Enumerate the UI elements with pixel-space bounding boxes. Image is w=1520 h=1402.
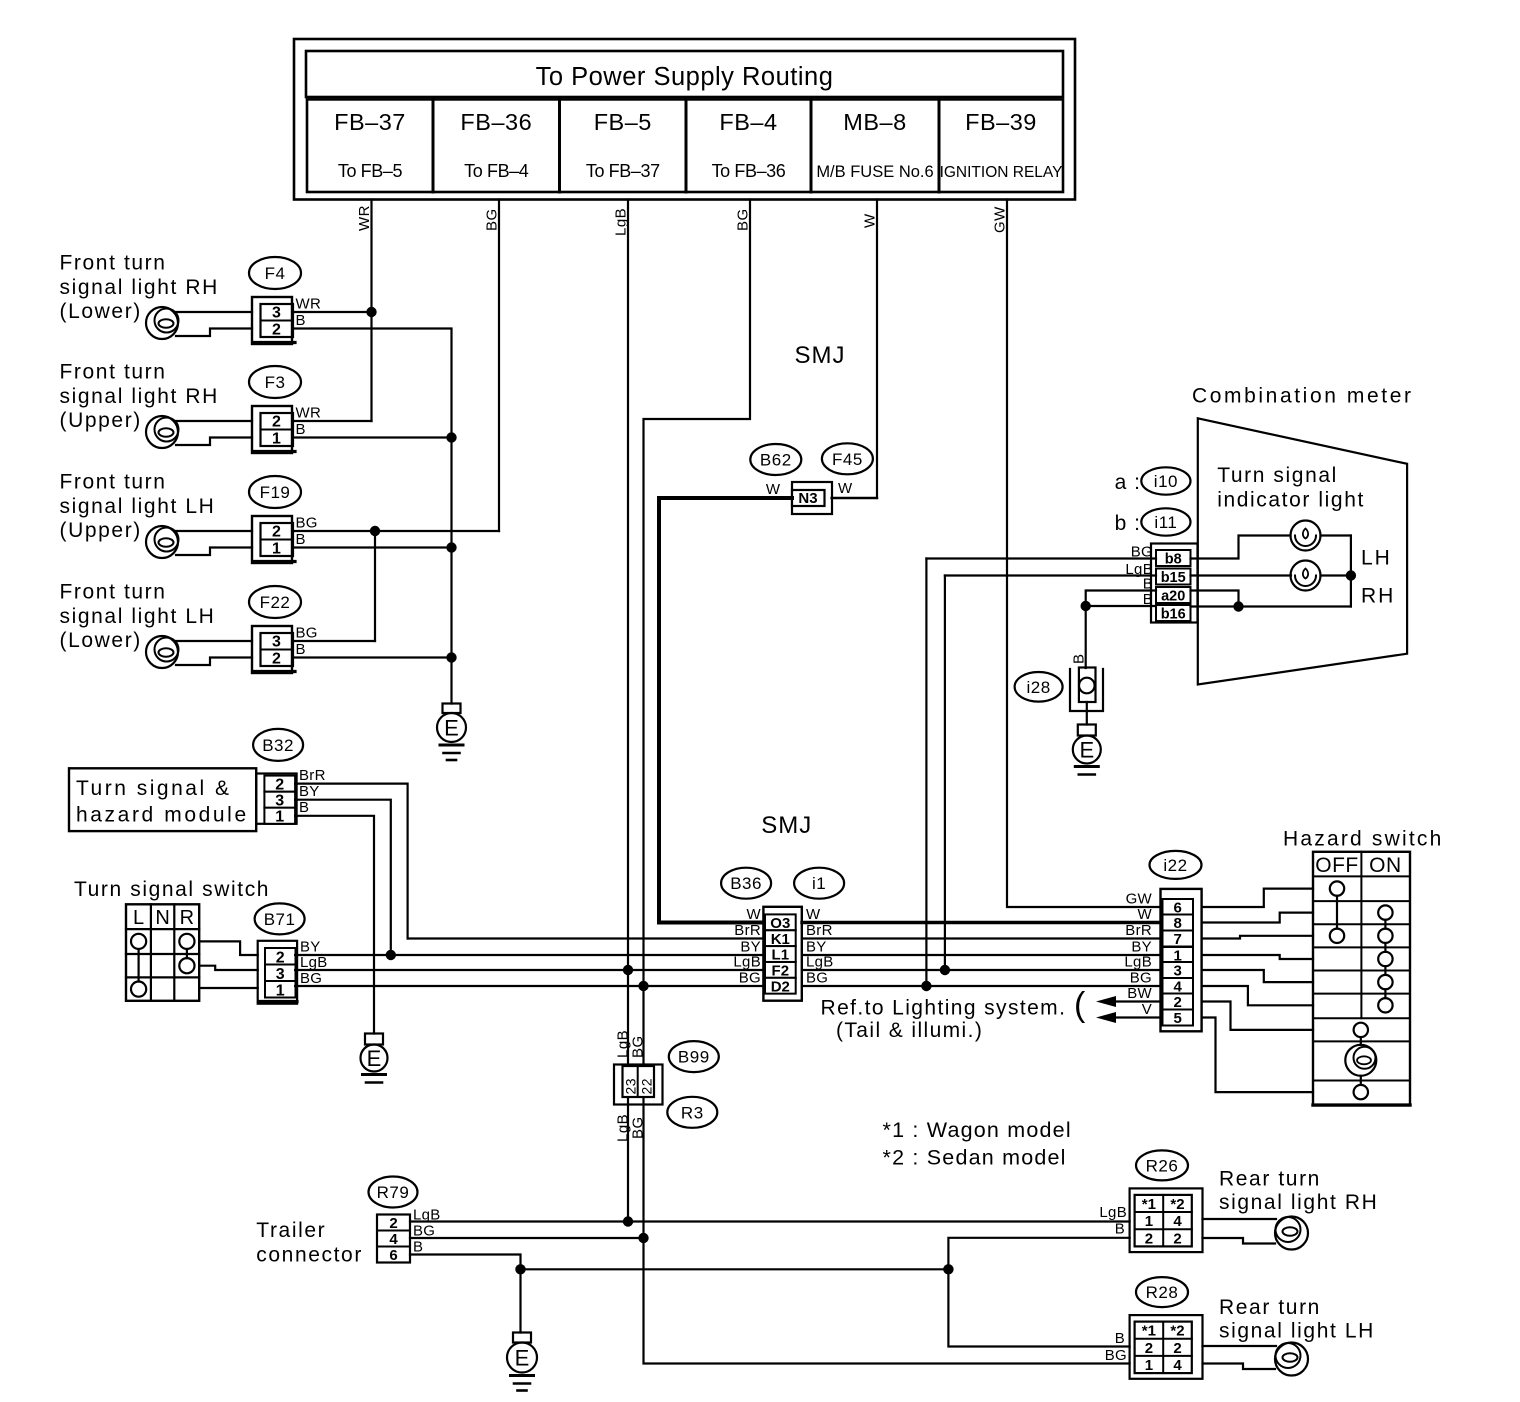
svg-text:Rear turn: Rear turn (1219, 1168, 1321, 1191)
svg-text:3: 3 (272, 305, 281, 322)
svg-text:i28: i28 (1027, 678, 1051, 697)
svg-text:B: B (296, 531, 306, 548)
svg-text:*2 : Sedan model: *2 : Sedan model (883, 1146, 1067, 1170)
svg-text:b16: b16 (1161, 607, 1186, 623)
svg-text:R28: R28 (1146, 1283, 1179, 1302)
svg-text:1: 1 (272, 431, 281, 448)
svg-text:To FB–5: To FB–5 (338, 161, 403, 181)
svg-text:IGNITION RELAY: IGNITION RELAY (940, 164, 1063, 181)
svg-text:6: 6 (389, 1247, 397, 1264)
svg-text:FB–5: FB–5 (594, 109, 652, 135)
svg-text:F3: F3 (265, 373, 286, 392)
svg-text:Front turn: Front turn (60, 471, 167, 494)
svg-text:WR: WR (296, 405, 322, 422)
svg-text:LH: LH (1361, 547, 1392, 570)
svg-text:D2: D2 (771, 978, 790, 995)
svg-text:connector: connector (256, 1244, 363, 1267)
svg-text:2: 2 (1174, 994, 1182, 1011)
svg-text:(Upper): (Upper) (60, 409, 142, 432)
svg-text:W: W (1138, 906, 1153, 923)
svg-text:F19: F19 (260, 483, 291, 502)
svg-text:To Power Supply Routing: To Power Supply Routing (536, 63, 834, 91)
svg-text:To FB–4: To FB–4 (464, 161, 529, 181)
svg-text:signal light LH: signal light LH (60, 605, 216, 628)
svg-text:BrR: BrR (734, 922, 761, 939)
svg-text:B: B (296, 641, 306, 658)
svg-text:BG: BG (806, 970, 828, 987)
svg-text:Trailer: Trailer (256, 1219, 326, 1242)
svg-text:a20: a20 (1161, 589, 1185, 605)
svg-text:FB–37: FB–37 (334, 109, 406, 135)
svg-text:B: B (1115, 1330, 1125, 1347)
svg-text:N: N (155, 907, 169, 929)
svg-text:23: 23 (623, 1078, 639, 1095)
svg-text:22: 22 (639, 1078, 655, 1095)
svg-text:b :: b : (1115, 512, 1141, 535)
svg-text:2: 2 (1173, 1230, 1181, 1247)
svg-text:B36: B36 (730, 874, 762, 893)
svg-text:(Upper): (Upper) (60, 519, 142, 542)
svg-text:B: B (296, 312, 306, 329)
svg-text:F45: F45 (832, 450, 863, 469)
svg-text:Turn signal: Turn signal (1217, 464, 1338, 487)
svg-text:(Lower): (Lower) (60, 629, 142, 652)
svg-text:*1 : Wagon model: *1 : Wagon model (883, 1118, 1072, 1142)
svg-text:3: 3 (1174, 963, 1182, 980)
svg-text:GW: GW (1126, 891, 1153, 908)
svg-text:R79: R79 (377, 1183, 410, 1202)
svg-text:ON: ON (1369, 854, 1402, 877)
svg-text:*2: *2 (1170, 1196, 1184, 1213)
svg-text:V: V (1142, 1001, 1152, 1018)
svg-text:3: 3 (272, 634, 281, 651)
svg-text:BG: BG (630, 1035, 647, 1058)
svg-text:8: 8 (1174, 915, 1182, 932)
svg-text:FB–39: FB–39 (965, 109, 1037, 135)
svg-text:BG: BG (1130, 970, 1152, 987)
svg-text:BG: BG (296, 625, 318, 642)
svg-text:2: 2 (1145, 1230, 1153, 1247)
svg-text:LgB: LgB (1124, 954, 1152, 971)
svg-text:BrR: BrR (806, 922, 833, 939)
svg-text:Rear turn: Rear turn (1219, 1296, 1321, 1319)
svg-text:R3: R3 (681, 1103, 704, 1122)
svg-text:F4: F4 (265, 264, 286, 283)
svg-text:4: 4 (1173, 1357, 1182, 1374)
svg-text:2: 2 (1145, 1340, 1153, 1357)
svg-text:i10: i10 (1154, 472, 1178, 491)
svg-text:To FB–36: To FB–36 (712, 161, 786, 181)
svg-text:R: R (180, 907, 194, 929)
svg-text:E: E (444, 716, 459, 741)
svg-text:BG: BG (630, 1116, 647, 1139)
svg-text:Front turn: Front turn (60, 581, 167, 604)
svg-text:signal light RH: signal light RH (60, 385, 219, 408)
svg-text:signal light RH: signal light RH (1219, 1191, 1378, 1214)
svg-text:BY: BY (300, 939, 321, 956)
svg-text:LgB: LgB (733, 954, 761, 971)
svg-text:Turn signal switch: Turn signal switch (74, 878, 270, 901)
svg-text:2: 2 (1173, 1340, 1181, 1357)
svg-text:indicator light: indicator light (1217, 489, 1365, 512)
svg-text:Ref.to Lighting system.: Ref.to Lighting system. (821, 997, 1067, 1020)
svg-text:b8: b8 (1165, 552, 1182, 568)
svg-text:hazard module: hazard module (76, 804, 249, 827)
svg-text:7: 7 (1174, 931, 1182, 948)
svg-text:MB–8: MB–8 (843, 109, 906, 135)
svg-text:2: 2 (272, 414, 281, 431)
svg-text:2: 2 (272, 322, 281, 339)
svg-text:F22: F22 (260, 593, 291, 612)
svg-text:*1: *1 (1142, 1323, 1156, 1340)
svg-text:E: E (1079, 738, 1094, 763)
svg-text:1: 1 (1145, 1357, 1153, 1374)
svg-text:i22: i22 (1163, 856, 1187, 875)
svg-text:5: 5 (1174, 1010, 1182, 1027)
svg-text:BG: BG (300, 970, 322, 987)
svg-text:1: 1 (1145, 1213, 1153, 1230)
svg-text:B: B (296, 421, 306, 438)
svg-text:B: B (299, 799, 309, 816)
svg-text:B32: B32 (262, 736, 294, 755)
svg-text:1: 1 (275, 809, 284, 826)
svg-text:2: 2 (389, 1215, 397, 1232)
svg-text:B99: B99 (678, 1048, 710, 1067)
svg-text:W: W (747, 906, 762, 923)
svg-text:LgB: LgB (300, 954, 328, 971)
svg-text:W: W (766, 481, 781, 498)
svg-text:W: W (838, 480, 853, 497)
svg-text:BrR: BrR (1125, 922, 1152, 939)
svg-text:Turn signal &: Turn signal & (76, 777, 231, 800)
svg-text:To FB–37: To FB–37 (586, 161, 660, 181)
svg-text:FB–4: FB–4 (719, 109, 777, 135)
svg-text:FB–36: FB–36 (460, 109, 532, 135)
svg-text:*1: *1 (1142, 1196, 1156, 1213)
svg-text:E: E (515, 1346, 530, 1371)
svg-text:LgB: LgB (1099, 1204, 1127, 1221)
svg-text:B62: B62 (760, 451, 792, 470)
svg-text:BY: BY (299, 783, 320, 800)
svg-text:SMJ: SMJ (795, 342, 846, 369)
svg-text:BG: BG (1105, 1347, 1127, 1364)
svg-text:Front turn: Front turn (60, 361, 167, 384)
svg-text:E: E (367, 1046, 382, 1071)
svg-text:B: B (1071, 653, 1088, 664)
svg-text:N3: N3 (798, 490, 817, 507)
svg-text:B: B (413, 1239, 423, 1256)
svg-text:1: 1 (272, 541, 281, 558)
svg-text:LgB: LgB (806, 954, 834, 971)
svg-text:BG: BG (739, 970, 761, 987)
svg-text:(: ( (1074, 986, 1086, 1024)
svg-text:signal light LH: signal light LH (60, 495, 216, 518)
svg-text:signal light RH: signal light RH (60, 276, 219, 299)
svg-text:i11: i11 (1154, 513, 1177, 532)
svg-text:B: B (1115, 1221, 1125, 1238)
svg-text:BG: BG (296, 515, 318, 532)
svg-text:BW: BW (1127, 985, 1152, 1002)
svg-text:Hazard switch: Hazard switch (1283, 828, 1443, 851)
svg-text:2: 2 (272, 651, 281, 668)
svg-text:W: W (806, 906, 821, 923)
svg-text:4: 4 (389, 1231, 398, 1248)
svg-text:RH: RH (1361, 585, 1395, 608)
svg-text:*2: *2 (1170, 1323, 1184, 1340)
svg-text:SMJ: SMJ (761, 812, 812, 839)
svg-text:Combination meter: Combination meter (1192, 385, 1414, 408)
svg-text:R26: R26 (1146, 1156, 1179, 1175)
svg-text:1: 1 (276, 982, 285, 999)
svg-text:signal light LH: signal light LH (1219, 1320, 1375, 1343)
svg-text:(Tail & illumi.): (Tail & illumi.) (836, 1019, 983, 1042)
svg-text:M/B FUSE No.6: M/B FUSE No.6 (816, 163, 933, 181)
svg-text:4: 4 (1173, 1213, 1182, 1230)
svg-text:2: 2 (272, 524, 281, 541)
svg-text:Front turn: Front turn (60, 252, 167, 275)
svg-text:a :: a : (1115, 471, 1141, 494)
svg-text:(Lower): (Lower) (60, 300, 142, 323)
svg-text:WR: WR (296, 296, 322, 313)
svg-text:B71: B71 (264, 910, 296, 929)
svg-text:BrR: BrR (299, 767, 326, 784)
svg-text:i1: i1 (812, 874, 826, 893)
svg-text:L: L (133, 907, 144, 929)
svg-text:OFF: OFF (1315, 854, 1359, 877)
svg-text:b15: b15 (1161, 570, 1186, 586)
